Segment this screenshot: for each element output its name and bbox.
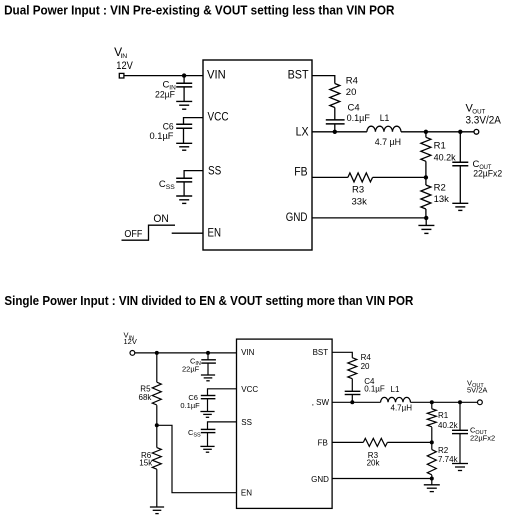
svg-text:40.2k: 40.2k bbox=[438, 421, 459, 430]
capacitor C6 (bottom) bbox=[201, 396, 216, 412]
resistor R3 (bottom, horizontal) bbox=[363, 438, 387, 446]
inductor L1 (bottom) bbox=[381, 397, 411, 402]
node junction dot LX/R4 bbox=[333, 130, 337, 134]
svg-text:SS: SS bbox=[193, 433, 201, 439]
svg-text:VIN: VIN bbox=[207, 67, 226, 81]
svg-text:68k: 68k bbox=[139, 393, 153, 402]
svg-text:VCC: VCC bbox=[241, 385, 258, 394]
label COUT value bbox=[473, 159, 503, 180]
label R4 value bbox=[346, 75, 358, 98]
svg-text:VCC: VCC bbox=[208, 110, 229, 124]
svg-text:0.1µF: 0.1µF bbox=[180, 401, 200, 410]
svg-text:C4: C4 bbox=[348, 102, 360, 113]
svg-text:12V: 12V bbox=[116, 60, 133, 72]
wire GND pin to ground node bbox=[312, 217, 426, 219]
svg-text:R3: R3 bbox=[352, 185, 364, 196]
label C4 value (bottom) bbox=[364, 377, 385, 394]
svg-text:15k: 15k bbox=[139, 459, 153, 468]
svg-text:13k: 13k bbox=[434, 194, 450, 205]
svg-text:22µFx2: 22µFx2 bbox=[470, 433, 495, 442]
terminal circle VOUT (bottom) bbox=[478, 400, 483, 405]
wire R3 to FB node bbox=[373, 176, 426, 178]
svg-text:R2: R2 bbox=[434, 183, 446, 194]
op-amp U2 (converter IC block, bottom circuit) bbox=[237, 339, 333, 508]
label R5 value bbox=[139, 384, 153, 401]
resistor R4 (bottom) bbox=[348, 358, 357, 379]
capacitor C4 (bottom) bbox=[345, 391, 361, 402]
resistor R3 (top, horizontal) bbox=[348, 173, 373, 182]
svg-text:20: 20 bbox=[361, 362, 370, 371]
wire VIN terminal to U2 bbox=[135, 352, 237, 354]
svg-text:VIN: VIN bbox=[241, 348, 255, 357]
node VIN 12V label (top) bbox=[114, 45, 133, 72]
wire to EN pin bbox=[172, 232, 203, 234]
resistor R1 (top) bbox=[421, 132, 431, 178]
wire VCC pin to C6 (bottom) bbox=[208, 389, 237, 396]
node junction dot GND bbox=[424, 216, 428, 220]
node junction dot R5/R6 bbox=[155, 423, 159, 427]
node junction dot FB divider (bottom) bbox=[430, 440, 434, 444]
terminal square VIN input bbox=[119, 73, 124, 78]
ground below R6 bbox=[150, 507, 164, 514]
label R1 value bbox=[434, 141, 456, 164]
label C4 value bbox=[347, 102, 370, 124]
capacitor CIN (top) bbox=[176, 76, 192, 102]
svg-text:OFF: OFF bbox=[124, 228, 142, 240]
label COUT value (bottom) bbox=[470, 426, 495, 443]
capacitor COUT (bottom) bbox=[452, 402, 468, 463]
label R4 value (bottom) bbox=[361, 353, 372, 371]
op-amp U1 (converter IC block, top circuit) bbox=[203, 60, 312, 250]
wire R4 to C4 bbox=[334, 108, 336, 120]
wire divider tap to EN pin bbox=[157, 425, 237, 492]
label R6 value bbox=[139, 451, 153, 468]
svg-text:20k: 20k bbox=[367, 459, 381, 468]
label C6 value bbox=[150, 121, 174, 142]
node VOUT 5V/2A label bbox=[467, 379, 487, 395]
terminal circle VOUT bbox=[474, 129, 479, 134]
label L1 value (bottom) bbox=[391, 385, 413, 413]
svg-text:R1: R1 bbox=[434, 141, 446, 152]
wire SS pin to CSS (bottom) bbox=[208, 422, 237, 430]
svg-text:SS: SS bbox=[166, 184, 176, 191]
svg-text:L1: L1 bbox=[391, 385, 400, 394]
resistor R4 (top) bbox=[330, 84, 340, 108]
wire SW to L1 (bottom) bbox=[332, 401, 381, 403]
svg-text:ON: ON bbox=[153, 213, 168, 225]
ground below CSS (bottom) bbox=[200, 446, 214, 452]
node junction dot GND (bottom) bbox=[430, 477, 434, 481]
wire BST pin to R4 bbox=[312, 76, 335, 84]
svg-text:SS: SS bbox=[208, 163, 221, 177]
resistor R2 (bottom) bbox=[427, 442, 436, 478]
wire GND pin to ground node (bottom) bbox=[332, 478, 432, 480]
svg-text:22µF: 22µF bbox=[182, 365, 200, 374]
svg-text:3.3V/2A: 3.3V/2A bbox=[466, 115, 502, 127]
node VOUT 3.3V/2A label bbox=[466, 103, 502, 127]
wire R3 to FB node (bottom) bbox=[387, 441, 431, 443]
ground below COUT (bottom) bbox=[452, 464, 468, 471]
svg-text:33k: 33k bbox=[352, 197, 368, 208]
svg-text:0.1µF: 0.1µF bbox=[364, 385, 385, 394]
svg-text:Dual Power Input : VIN Pre-exi: Dual Power Input : VIN Pre-existing & VO… bbox=[4, 2, 395, 17]
svg-text:, SW: , SW bbox=[312, 398, 330, 407]
svg-text:GND: GND bbox=[311, 475, 329, 484]
svg-text:22µFx2: 22µFx2 bbox=[473, 168, 502, 179]
ground below COUT bbox=[452, 203, 468, 210]
ground below CIN (bottom) bbox=[201, 375, 215, 381]
node junction dot SW/R4 bbox=[350, 400, 354, 404]
ground below CIN bbox=[176, 101, 192, 109]
svg-text:0.1µF: 0.1µF bbox=[347, 113, 370, 124]
capacitor CSS (bottom) bbox=[201, 429, 216, 446]
svg-text:BST: BST bbox=[288, 68, 310, 82]
wire FB pin to R3 bbox=[312, 176, 348, 178]
resistor R2 (top) bbox=[421, 177, 431, 218]
label R3 value bbox=[352, 185, 368, 208]
terminal circle VIN (bottom) bbox=[130, 351, 135, 356]
wire LX to L1 bbox=[312, 131, 367, 133]
wire SS pin to CSS bbox=[184, 171, 203, 179]
node junction dot COUT tap (bottom) bbox=[458, 400, 462, 404]
svg-text:BST: BST bbox=[313, 348, 329, 357]
svg-text:IN: IN bbox=[120, 53, 127, 60]
label L1 value bbox=[375, 113, 401, 148]
label CSS (bottom) bbox=[188, 428, 201, 439]
svg-text:12V: 12V bbox=[124, 337, 137, 346]
capacitor C4 (top) bbox=[326, 120, 345, 132]
svg-text:EN: EN bbox=[241, 489, 252, 498]
svg-text:4.7µH: 4.7µH bbox=[391, 404, 413, 413]
resistor R1 (bottom) bbox=[427, 402, 436, 442]
ground below CSS bbox=[176, 196, 192, 203]
node junction dot COUT tap bbox=[458, 130, 462, 134]
svg-text:FB: FB bbox=[318, 439, 328, 448]
node junction dot CIN tap bbox=[182, 73, 186, 77]
wire VIN terminal to U1 bbox=[124, 75, 203, 77]
wire BST pin to R4 (bottom) bbox=[332, 352, 352, 357]
svg-text:GND: GND bbox=[286, 210, 308, 224]
label R2 value bbox=[434, 183, 450, 206]
wire R4 to C4 (bottom) bbox=[351, 379, 353, 392]
svg-text:FB: FB bbox=[294, 165, 307, 179]
svg-text:0.1µF: 0.1µF bbox=[150, 131, 174, 142]
svg-text:LX: LX bbox=[296, 124, 309, 138]
ground below R2 (bottom) bbox=[424, 479, 440, 492]
label R2 value (bottom) bbox=[438, 446, 459, 464]
capacitor CIN (bottom) bbox=[201, 353, 216, 375]
wire FB pin to R3 (bottom) bbox=[332, 441, 363, 443]
ground below C6 bbox=[176, 143, 192, 150]
node junction dot FB divider bbox=[424, 175, 428, 179]
svg-text:20: 20 bbox=[346, 87, 357, 98]
svg-text:22µF: 22µF bbox=[155, 89, 175, 100]
wire VCC pin to C6 bbox=[184, 118, 204, 125]
svg-text:R1: R1 bbox=[438, 411, 449, 420]
label R1 value (bottom) bbox=[438, 411, 459, 430]
svg-text:R4: R4 bbox=[346, 75, 358, 86]
ground below C6 (bottom) bbox=[200, 412, 214, 418]
label CIN value bbox=[155, 79, 176, 100]
node junction dot R1 tap (bottom) bbox=[430, 400, 434, 404]
node VIN 12V label (bottom) bbox=[124, 331, 137, 346]
wire L1 to VOUT terminal bbox=[401, 131, 474, 133]
ground below R2 bbox=[418, 218, 434, 234]
resistor R6 bbox=[152, 425, 161, 507]
wire L1 to VOUT terminal (bottom) bbox=[410, 401, 477, 403]
label CSS bbox=[159, 179, 176, 191]
svg-text:4.7 µH: 4.7 µH bbox=[375, 137, 401, 148]
svg-text:Single Power Input : VIN divid: Single Power Input : VIN divided to EN &… bbox=[4, 293, 414, 308]
node junction dot R1 tap bbox=[424, 130, 428, 134]
svg-text:R2: R2 bbox=[438, 446, 449, 455]
svg-text:5V/2A: 5V/2A bbox=[467, 385, 487, 394]
svg-text:EN: EN bbox=[208, 226, 222, 240]
label CIN value (bottom) bbox=[182, 357, 201, 374]
node junction dot R5 tap bbox=[155, 351, 159, 355]
svg-text:SS: SS bbox=[241, 418, 252, 427]
resistor R5 bbox=[152, 353, 161, 425]
svg-text:L1: L1 bbox=[380, 113, 390, 124]
inductor L1 (top) bbox=[367, 126, 401, 132]
capacitor CSS (top) bbox=[176, 178, 192, 196]
label R3 value (bottom) bbox=[367, 451, 381, 468]
signal ON/OFF step waveform bbox=[122, 213, 176, 240]
capacitor COUT (top) bbox=[452, 132, 468, 204]
label C6 value (bottom) bbox=[180, 393, 200, 410]
capacitor C6 (top) bbox=[176, 124, 192, 143]
node junction dot CIN tap (bottom) bbox=[206, 351, 210, 355]
